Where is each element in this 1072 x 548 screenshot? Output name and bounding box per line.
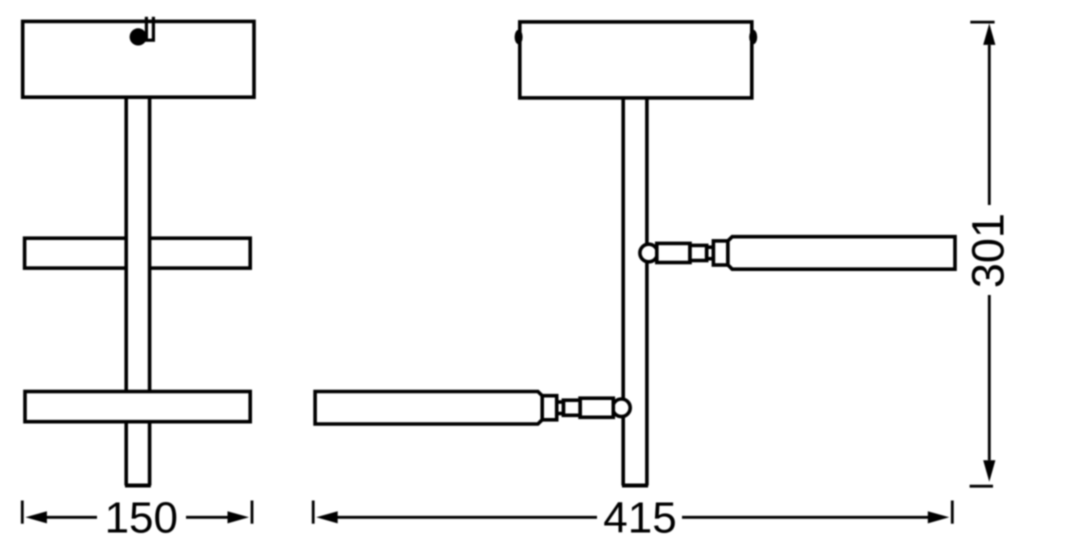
svg-text:150: 150 xyxy=(105,494,178,543)
svg-text:301: 301 xyxy=(962,213,1013,288)
svg-text:415: 415 xyxy=(603,494,676,543)
